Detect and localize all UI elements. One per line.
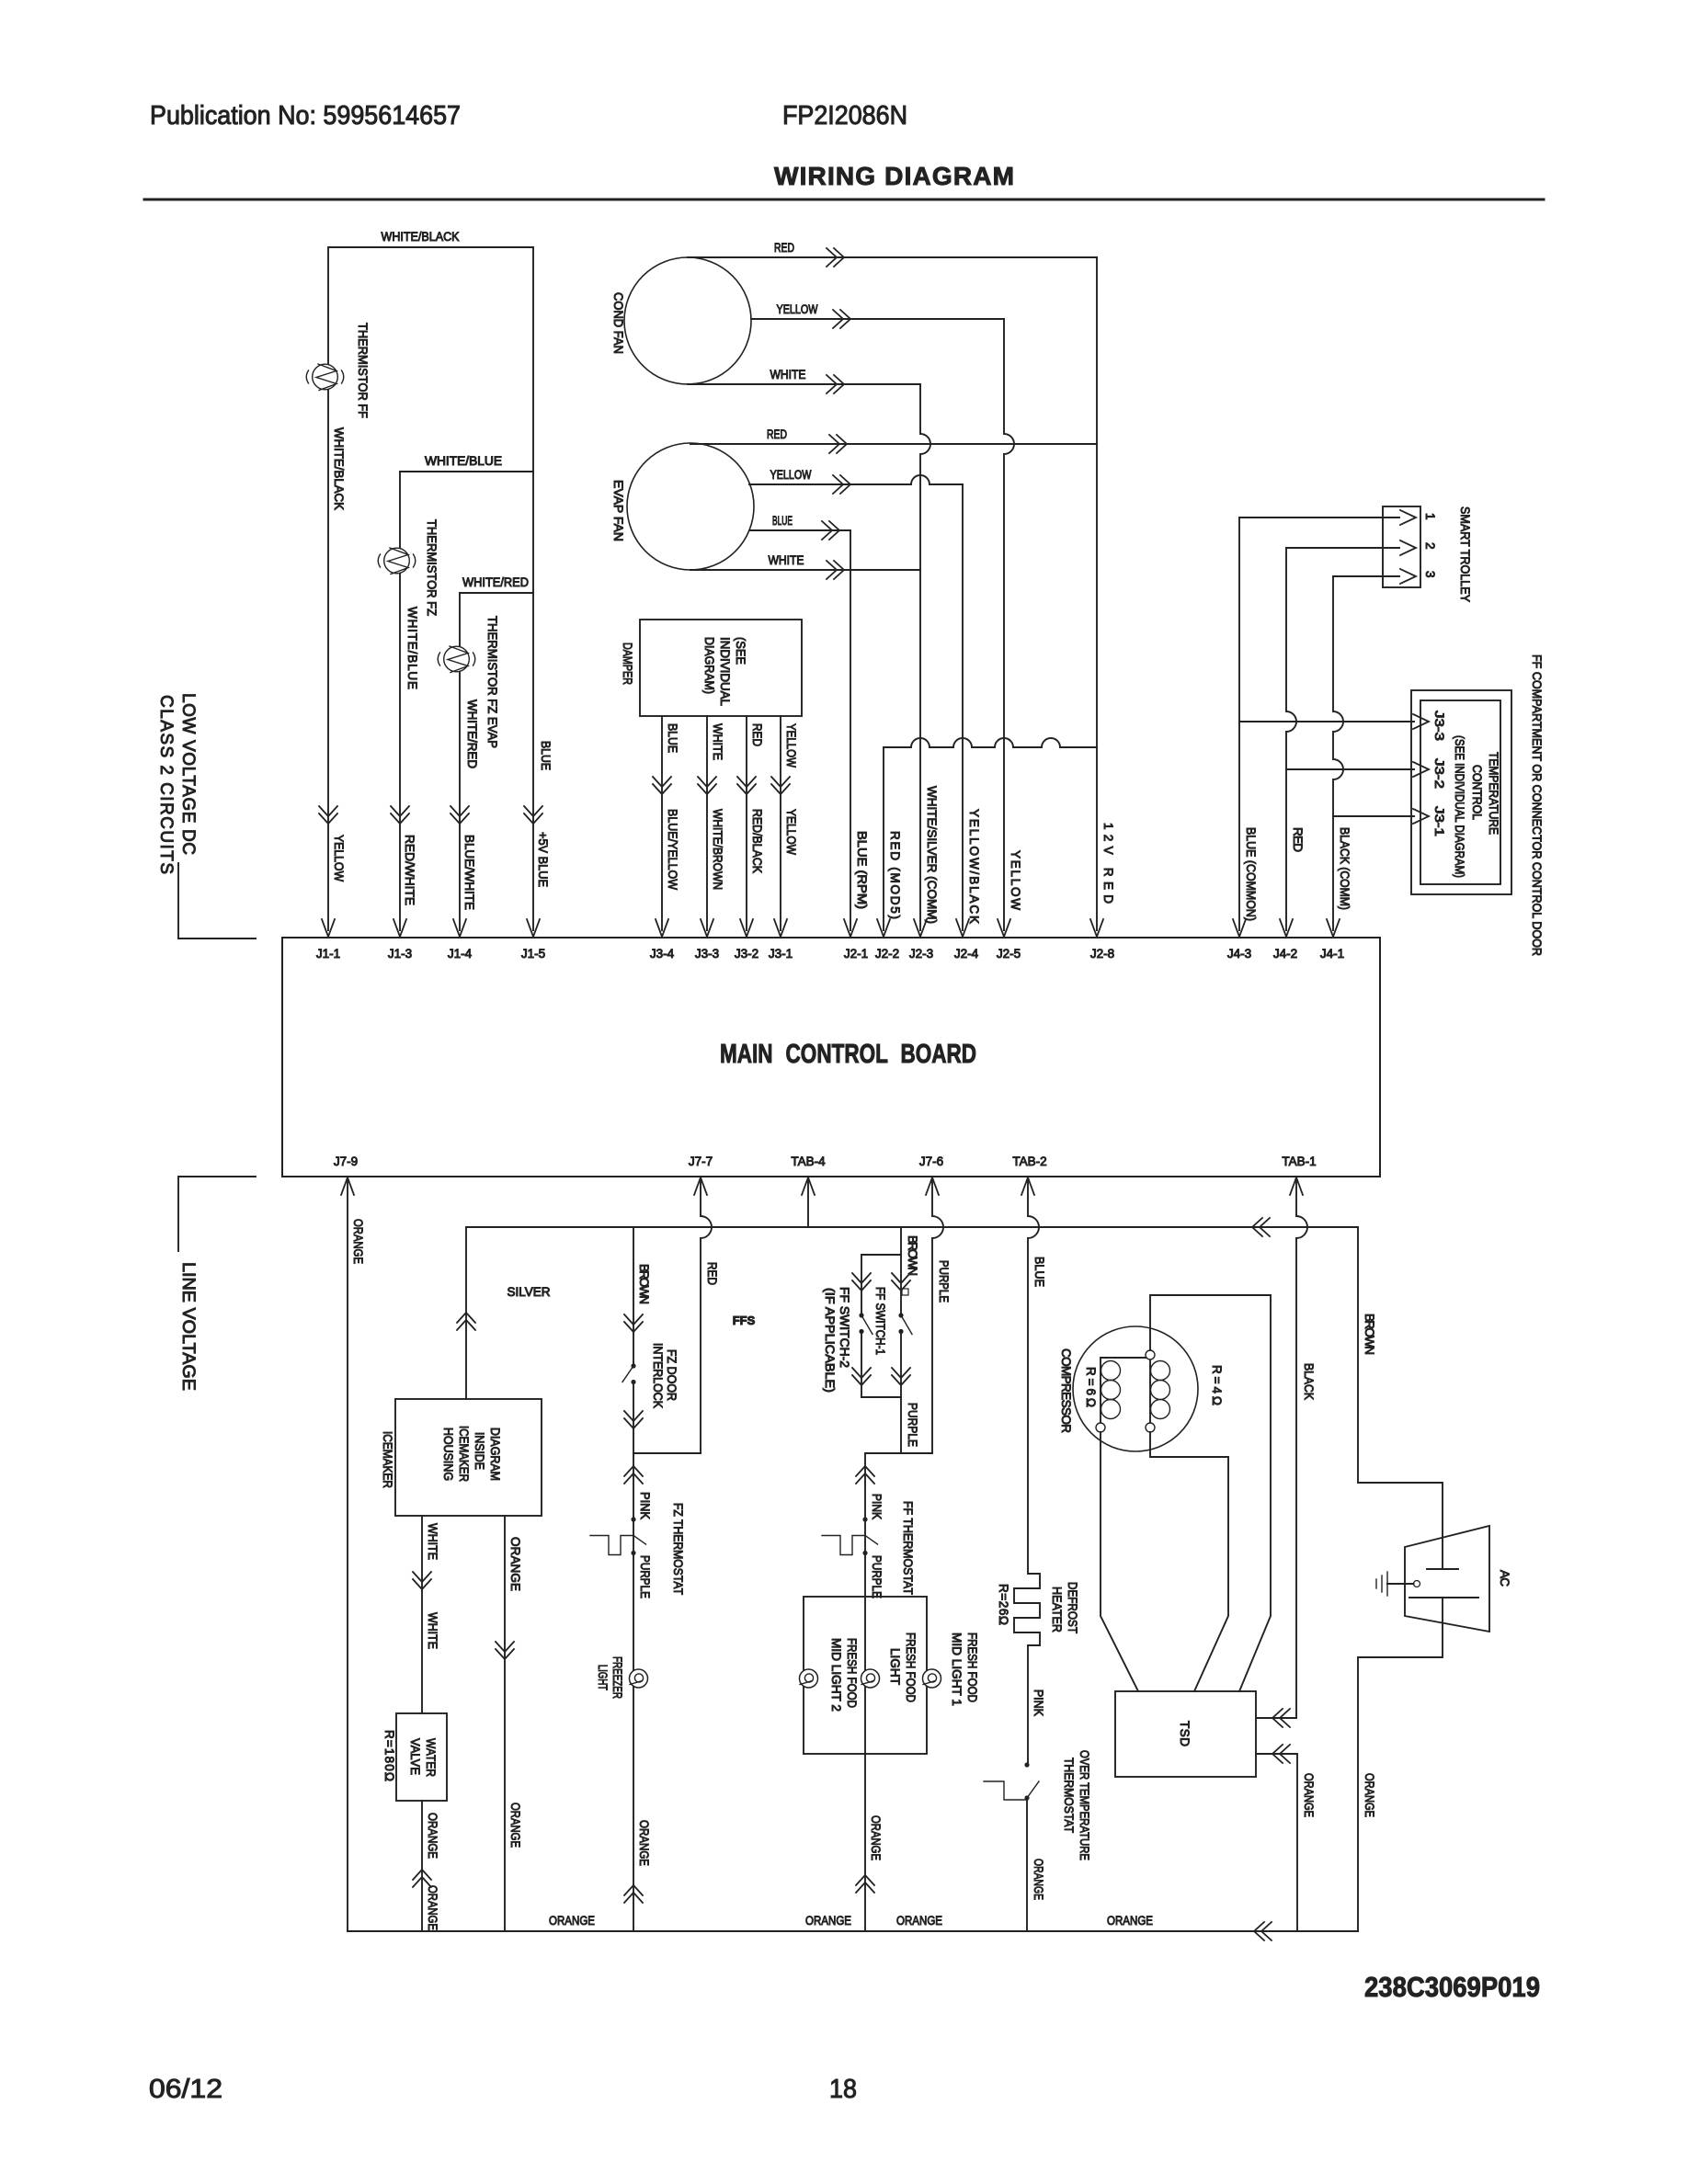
chevron ff sw1 top [892, 1280, 910, 1291]
svg-text:DIAGRAM: DIAGRAM [488, 1428, 502, 1481]
arrowhead into J2-1 [844, 919, 857, 937]
wire ff thermostat branch [864, 1453, 866, 1931]
wire ff switch-2 branch top [861, 1255, 862, 1315]
svg-text:THERMISTOR FF: THERMISTOR FF [356, 323, 370, 418]
svg-text:J2-3: J2-3 [909, 947, 933, 961]
wire J7-6 purple vertical [932, 1177, 943, 1453]
chevron J3-2 [737, 784, 756, 794]
temp J3-1 arrow [1413, 809, 1429, 824]
compressor coil link [1101, 1357, 1150, 1359]
svg-text:YELLOW: YELLOW [332, 835, 346, 882]
wire evap fan red [690, 443, 1097, 445]
svg-text:(SEE: (SEE [734, 637, 747, 665]
ff switch bottom rail [861, 1396, 901, 1398]
svg-text:THERMISTOR FZ: THERMISTOR FZ [425, 519, 439, 616]
arrowhead into J3-2 [740, 919, 753, 937]
svg-text:FF COMPARTMENT OR CONNECTOR CO: FF COMPARTMENT OR CONNECTOR CONTROL DOOR [1530, 654, 1544, 956]
svg-text:3: 3 [1423, 571, 1437, 578]
svg-text:J1-3: J1-3 [388, 947, 412, 961]
wire evap fan blue [749, 529, 850, 531]
chevron white evap [834, 561, 844, 579]
wire evap fan yellow [749, 475, 963, 484]
temp J3-3 arrow [1413, 714, 1429, 729]
svg-text:BLACK (COMM): BLACK (COMM) [1338, 827, 1352, 910]
wire J1-3 vertical [399, 472, 401, 930]
ac ground lead [1387, 1583, 1414, 1585]
svg-text:CLASS 2 CIRCUITS: CLASS 2 CIRCUITS [156, 695, 176, 874]
arrowhead out of TAB-1 [1290, 1177, 1303, 1195]
svg-text:BLUE: BLUE [666, 723, 679, 753]
cond fan motor circle [624, 257, 751, 384]
fresh food lights box [804, 1597, 927, 1754]
wire ff switch-1 branch bottom [900, 1332, 902, 1398]
svg-text:FRESH FOOD: FRESH FOOD [845, 1638, 859, 1708]
svg-text:ORANGE: ORANGE [896, 1914, 942, 1928]
wire J2-8 vertical [1096, 257, 1098, 930]
chevron ff orange [856, 1875, 874, 1885]
svg-text:YELLOW: YELLOW [784, 723, 798, 768]
ff switch top rail [861, 1254, 901, 1256]
ac upper prong [1427, 1568, 1458, 1570]
svg-text:BLUE: BLUE [539, 741, 553, 770]
ac ground bars [1386, 1572, 1388, 1596]
svg-text:PINK: PINK [870, 1494, 884, 1519]
compressor start coil [1149, 1359, 1151, 1423]
svg-text:SILVER: SILVER [508, 1285, 551, 1299]
svg-text:TAB-4: TAB-4 [791, 1155, 826, 1168]
svg-text:J4-2: J4-2 [1273, 947, 1297, 961]
wire trolley pin3 horizontal [1333, 575, 1399, 577]
chevron ff pink [856, 1466, 874, 1476]
tsd lower stub [1256, 1753, 1297, 1755]
wire J7-7 red vertical [701, 1177, 712, 1453]
ac lower prong [1409, 1597, 1478, 1598]
svg-text:PURPLE: PURPLE [638, 1555, 652, 1598]
wire J2-1 vertical [850, 530, 851, 930]
svg-text:WHITE/BLACK: WHITE/BLACK [382, 230, 460, 244]
trolley pin3 arrow [1400, 569, 1416, 584]
wire J2-2 vertical [883, 747, 884, 930]
svg-text:J2-2: J2-2 [875, 947, 899, 961]
arrowhead out of TAB-2 [1021, 1177, 1034, 1195]
chevron white cond [834, 375, 844, 393]
svg-text:RED (MOD5): RED (MOD5) [888, 831, 902, 919]
chevron ff sw2 top [852, 1280, 871, 1291]
svg-text:WHITE/RED: WHITE/RED [465, 700, 479, 768]
chevron J1-5 [524, 813, 542, 824]
svg-text:FF SWITCH-2: FF SWITCH-2 [838, 1287, 851, 1368]
wire trolley pin1 horizontal [1239, 517, 1399, 518]
pointer low voltage [178, 863, 256, 938]
svg-text:ICEMAKER: ICEMAKER [381, 1431, 394, 1488]
arrowhead into J3-1 [774, 919, 787, 937]
svg-text:J1-1: J1-1 [316, 947, 340, 961]
svg-text:ORANGE: ORANGE [1032, 1859, 1045, 1900]
arrowhead into J3-4 [656, 919, 668, 937]
svg-text:J3-1: J3-1 [1432, 806, 1446, 836]
arrowhead into J2-8 [1090, 919, 1103, 937]
svg-text:RED: RED [767, 427, 787, 441]
chevron J1-4 [451, 813, 469, 824]
svg-text:ORANGE: ORANGE [1107, 1914, 1153, 1928]
wire water valve orange [421, 1801, 423, 1931]
wire ff switch-1 branch top [900, 1255, 902, 1315]
chevron ff sw1 bottom [892, 1375, 910, 1385]
main control board box [282, 938, 1380, 1177]
svg-text:RED/BLACK: RED/BLACK [750, 809, 764, 873]
arrowhead into J1-1 [322, 919, 335, 937]
svg-text:COND FAN: COND FAN [611, 292, 625, 354]
svg-text:WHITE/SILVER (COMM): WHITE/SILVER (COMM) [925, 786, 939, 924]
svg-text:ORANGE: ORANGE [1302, 1773, 1316, 1817]
svg-text:MAIN CONTROL BOARD: MAIN CONTROL BOARD [720, 1040, 976, 1069]
wire J4-2 vertical [1286, 548, 1296, 930]
chevron fz pink [624, 1466, 643, 1476]
svg-text:TAB-2: TAB-2 [1012, 1155, 1046, 1168]
wire evap fan white [690, 569, 920, 571]
svg-text:FZ DOOR: FZ DOOR [665, 1349, 679, 1401]
wire temp control J3-1 [1333, 815, 1414, 817]
wire ff switch-2 branch bottom [861, 1332, 862, 1398]
svg-text:THERMOSTAT: THERMOSTAT [1062, 1757, 1076, 1833]
svg-text:238C3069P019: 238C3069P019 [1364, 1971, 1540, 2003]
thermistor FF [313, 364, 338, 390]
chevron rail left [1254, 1922, 1264, 1940]
wire cond fan yellow [751, 318, 1004, 320]
arrowhead into J4-2 [1280, 919, 1293, 937]
wire ac return orange [1358, 1598, 1443, 1931]
wire J3-1 vertical [780, 716, 781, 930]
svg-text:YELLOW: YELLOW [770, 468, 812, 482]
chevron fz brown [624, 1322, 643, 1332]
svg-text:BLUE (COMMON): BLUE (COMMON) [1244, 827, 1258, 921]
fz door interlock switch [631, 1363, 635, 1368]
arrowhead into J2-3 [914, 919, 927, 937]
ac plug body [1405, 1526, 1489, 1632]
svg-text:INDIVIDUAL: INDIVIDUAL [718, 637, 732, 706]
svg-text:WIRING DIAGRAM: WIRING DIAGRAM [774, 162, 1014, 190]
svg-text:J3-2: J3-2 [1432, 758, 1446, 789]
chevron icemaker orange [496, 1649, 514, 1659]
arrowhead into J3-3 [701, 919, 713, 937]
wire fz below switch [633, 1382, 634, 1454]
evap fan motor circle [627, 443, 754, 570]
svg-text:WHITE: WHITE [426, 1612, 439, 1649]
svg-text:LIGHT: LIGHT [888, 1648, 902, 1685]
wire mod5 horizontal [884, 738, 1097, 747]
svg-text:J2-1: J2-1 [844, 947, 868, 961]
svg-text:+5V BLUE: +5V BLUE [536, 832, 550, 887]
wire white/red horizontal [460, 592, 533, 594]
wire J2-5 vertical [1004, 319, 1014, 930]
line-voltage horizontal bus [466, 1226, 1358, 1228]
svg-text:ORANGE: ORANGE [869, 1815, 883, 1860]
chevron red cond [834, 248, 844, 267]
compressor terminal left [1096, 1423, 1105, 1432]
svg-text:ORANGE: ORANGE [426, 1885, 439, 1930]
wire TAB-4 stub [807, 1177, 809, 1227]
wire icemaker orange [504, 1516, 506, 1931]
wire J7-9 orange vertical [347, 1177, 348, 1931]
defrost heater resistor [1014, 1574, 1040, 1645]
fresh food mid light 1 lamp [923, 1669, 941, 1688]
thermistor FZ [384, 548, 410, 574]
chevron fz mid [624, 1418, 643, 1428]
arrowhead into J2-2 [877, 919, 890, 937]
svg-text:18: 18 [829, 2075, 857, 2104]
arrowhead out of TAB-4 [802, 1177, 815, 1195]
svg-text:R=180Ω: R=180Ω [382, 1730, 396, 1781]
compressor terminal top [1146, 1350, 1155, 1359]
svg-text:LINE VOLTAGE: LINE VOLTAGE [178, 1262, 198, 1391]
chevron J3-4 [653, 784, 671, 794]
svg-text:VALVE: VALVE [408, 1738, 422, 1775]
svg-text:OVER TEMPERATURE: OVER TEMPERATURE [1078, 1750, 1091, 1860]
wire temp control J3-2 [1286, 768, 1414, 770]
wire TAB-1 black vertical [1296, 1177, 1307, 1718]
svg-text:J2-8: J2-8 [1090, 947, 1114, 961]
wire ff brown drop [900, 1227, 902, 1255]
pointer line voltage [178, 1177, 256, 1251]
svg-text:BLACK: BLACK [1302, 1363, 1316, 1400]
svg-text:R=26Ω: R=26Ω [997, 1584, 1010, 1625]
svg-text:BROWN: BROWN [1363, 1314, 1376, 1355]
fresh food mid light 2 lamp [800, 1669, 818, 1688]
wire J1-1 vertical [327, 247, 329, 930]
freezer light lamp [630, 1669, 648, 1688]
svg-text:DIAGRAM): DIAGRAM) [702, 637, 716, 694]
svg-text:PINK: PINK [1032, 1689, 1045, 1716]
water valve box [396, 1713, 447, 1801]
svg-text:BLUE/WHITE: BLUE/WHITE [462, 835, 476, 910]
svg-text:RED: RED [750, 723, 764, 746]
bottom orange rail [348, 1930, 1358, 1932]
svg-text:J1-5: J1-5 [521, 947, 545, 961]
svg-text:J7-9: J7-9 [334, 1155, 358, 1168]
svg-text:BLUE/YELLOW: BLUE/YELLOW [666, 809, 679, 890]
chevron J3-1 [771, 784, 790, 794]
svg-text:J3-2: J3-2 [735, 947, 758, 961]
chevron J1-3 [391, 813, 409, 824]
svg-text:FP2I2086N: FP2I2086N [782, 101, 907, 131]
svg-text:J1-4: J1-4 [448, 947, 473, 961]
arrowhead into J2-4 [956, 919, 969, 937]
svg-text:J3-4: J3-4 [650, 947, 675, 961]
chevron J3-3 [698, 784, 716, 794]
ff thermostat [862, 1517, 867, 1521]
svg-text:HEATER: HEATER [1050, 1587, 1064, 1632]
svg-text:YELLOW/BLACK: YELLOW/BLACK [967, 809, 981, 924]
over temperature thermostat [1024, 1762, 1029, 1767]
wire compressor top to tsd [1150, 1295, 1271, 1691]
wire ff purple drop [900, 1397, 902, 1453]
chevron icemaker white [413, 1579, 431, 1589]
arrowhead into J1-3 [393, 919, 406, 937]
title underline [144, 199, 1544, 201]
wire fz brown [633, 1227, 634, 1366]
wire icemaker white [421, 1516, 423, 1713]
wire overtemp orange [1026, 1798, 1028, 1931]
wire TAB-2 blue vertical [1028, 1177, 1039, 1574]
svg-text:RED/WHITE: RED/WHITE [403, 835, 416, 905]
temp J3-2 arrow [1413, 762, 1429, 777]
trolley pin1 arrow [1400, 510, 1416, 525]
svg-text:PURPLE: PURPLE [906, 1403, 919, 1447]
svg-text:HOUSING: HOUSING [441, 1428, 455, 1481]
svg-text:TSD: TSD [1178, 1721, 1192, 1746]
fresh food light lamp [861, 1669, 880, 1688]
wire J3-3 vertical [706, 716, 708, 930]
chevron yellow evap [840, 475, 850, 494]
svg-text:FFS: FFS [733, 1314, 756, 1327]
svg-text:WHITE: WHITE [770, 368, 806, 381]
svg-text:DEFROST: DEFROST [1066, 1582, 1079, 1633]
wire defrost to overtemp [1027, 1645, 1029, 1765]
svg-text:FF THERMOSTAT: FF THERMOSTAT [901, 1501, 915, 1595]
wire cond fan red [688, 256, 1097, 258]
tsd upper stub [1256, 1717, 1296, 1719]
wire silver riser [465, 1227, 467, 1399]
trolley pin2 arrow [1400, 540, 1416, 555]
svg-text:06/12: 06/12 [149, 2075, 222, 2104]
chevron J1-1 [319, 813, 337, 824]
svg-text:FRESH FOOD: FRESH FOOD [904, 1632, 918, 1702]
wire J1-4 vertical [459, 593, 461, 930]
svg-text:YELLOW: YELLOW [1009, 850, 1022, 910]
tsd box [1115, 1691, 1256, 1777]
wire J4-1 vertical [1333, 576, 1343, 930]
chevron silver [457, 1313, 475, 1323]
svg-text:RED: RED [1291, 827, 1305, 852]
chevron red evap [837, 435, 847, 453]
chevron tsd upper [1272, 1709, 1283, 1727]
damper box [640, 620, 802, 716]
svg-text:WHITE/BLACK: WHITE/BLACK [332, 427, 346, 510]
temperature control inner box [1420, 700, 1500, 884]
wire J3-2 vertical [746, 716, 747, 930]
svg-text:J3-3: J3-3 [1432, 711, 1446, 741]
chevron tsd lower [1272, 1745, 1283, 1763]
svg-text:THERMISTOR FZ EVAP: THERMISTOR FZ EVAP [485, 616, 499, 748]
svg-text:BLUE: BLUE [772, 514, 793, 528]
svg-text:WATER: WATER [424, 1738, 438, 1777]
arrowhead into J2-5 [998, 919, 1010, 937]
svg-text:J4-1: J4-1 [1320, 947, 1344, 961]
svg-text:COMPRESSOR: COMPRESSOR [1059, 1348, 1073, 1433]
chevron blue evap [829, 521, 839, 540]
svg-text:SMART TROLLEY: SMART TROLLEY [1458, 506, 1472, 602]
svg-text:WHITE/BLUE: WHITE/BLUE [425, 454, 502, 468]
svg-text:RED: RED [705, 1262, 719, 1285]
svg-text:MID LIGHT 1: MID LIGHT 1 [950, 1632, 964, 1706]
svg-text:ORANGE: ORANGE [351, 1219, 365, 1264]
svg-text:J7-6: J7-6 [919, 1155, 943, 1168]
svg-text:ORANGE: ORANGE [426, 1813, 439, 1859]
chevron bus left [1252, 1218, 1262, 1236]
wire compressor right to tsd [1150, 1432, 1228, 1691]
wire temp control J3-3 [1239, 721, 1414, 722]
svg-text:ORANGE: ORANGE [549, 1914, 595, 1928]
svg-text:ICEMAKER: ICEMAKER [457, 1426, 471, 1482]
svg-text:PURPLE: PURPLE [937, 1260, 951, 1302]
svg-text:1: 1 [1423, 513, 1437, 520]
wire fz thermostat branch [633, 1453, 634, 1931]
wire trolley pin2 horizontal [1286, 547, 1399, 549]
arrowhead into J4-3 [1233, 919, 1246, 937]
arrowhead out of J7-9 [341, 1177, 354, 1195]
ff switch-1 [898, 1313, 903, 1317]
arrowhead out of J7-6 [926, 1177, 939, 1195]
arrowhead into J1-4 [453, 919, 466, 937]
chevron freezer orange [624, 1885, 643, 1895]
smart trolley connector box [1383, 506, 1420, 587]
thermistor FZ EVAP [444, 646, 470, 672]
svg-text:J4-3: J4-3 [1227, 947, 1251, 961]
svg-text:DAMPER: DAMPER [621, 643, 634, 685]
svg-text:WHITE/RED: WHITE/RED [462, 575, 529, 589]
svg-text:TAB-1: TAB-1 [1282, 1155, 1316, 1168]
svg-text:BROWN: BROWN [906, 1235, 919, 1276]
svg-text:WHITE/BROWN: WHITE/BROWN [711, 809, 724, 890]
svg-text:EVAP FAN: EVAP FAN [611, 480, 625, 541]
svg-text:J2-5: J2-5 [997, 947, 1021, 961]
svg-text:FRESH FOOD: FRESH FOOD [965, 1632, 979, 1702]
wire red-brown join [633, 1452, 701, 1454]
svg-text:PURPLE: PURPLE [870, 1555, 884, 1598]
wire cond fan white [688, 383, 920, 385]
svg-text:Publication No: 5995614657: Publication No: 5995614657 [150, 101, 461, 131]
svg-text:WHITE: WHITE [711, 723, 724, 760]
svg-text:J7-7: J7-7 [689, 1155, 713, 1168]
wire white/blue horizontal [400, 471, 533, 472]
svg-text:WHITE: WHITE [426, 1523, 439, 1560]
svg-text:FREEZER: FREEZER [610, 1656, 624, 1699]
wire tsd orange down [1296, 1754, 1298, 1931]
arrowhead out of J7-7 [694, 1177, 707, 1195]
svg-text:LOW VOLTAGE DC: LOW VOLTAGE DC [178, 693, 198, 855]
temperature control outer box [1411, 690, 1511, 894]
svg-text:CONTROL: CONTROL [1470, 765, 1484, 820]
svg-text:ORANGE: ORANGE [508, 1537, 522, 1591]
svg-text:(SEE INDIVIDUAL DIAGRAM): (SEE INDIVIDUAL DIAGRAM) [1453, 735, 1466, 878]
svg-text:FZ THERMOSTAT: FZ THERMOSTAT [671, 1503, 685, 1595]
wire white/black top horizontal [328, 246, 533, 248]
svg-text:YELLOW: YELLOW [777, 302, 818, 316]
svg-text:BROWN: BROWN [637, 1264, 651, 1304]
svg-text:J2-4: J2-4 [954, 947, 979, 961]
wire brown to ac [1358, 1227, 1443, 1569]
svg-text:ORANGE: ORANGE [508, 1803, 522, 1848]
svg-text:WHITE: WHITE [769, 553, 804, 567]
svg-text:J3-3: J3-3 [695, 947, 719, 961]
wire J3-4 vertical [661, 716, 663, 930]
wire compressor left to tsd [1101, 1432, 1138, 1691]
svg-text:INSIDE: INSIDE [473, 1432, 486, 1470]
svg-text:ORANGE: ORANGE [805, 1914, 851, 1928]
chevron yellow cond [840, 310, 850, 328]
chevron water valve [413, 1870, 431, 1880]
wire ff join horizontal [865, 1452, 932, 1454]
compressor run coil [1100, 1358, 1101, 1423]
svg-text:WHITE/BLUE: WHITE/BLUE [405, 607, 419, 689]
wire J4-3 vertical [1238, 518, 1240, 930]
ff switch-2 [859, 1313, 863, 1317]
compressor terminal right [1146, 1423, 1155, 1432]
svg-text:PINK: PINK [638, 1492, 652, 1519]
svg-text:ORANGE: ORANGE [1363, 1773, 1376, 1817]
wire J1-5 vertical [532, 247, 534, 930]
ac ground pin circle [1414, 1581, 1420, 1587]
